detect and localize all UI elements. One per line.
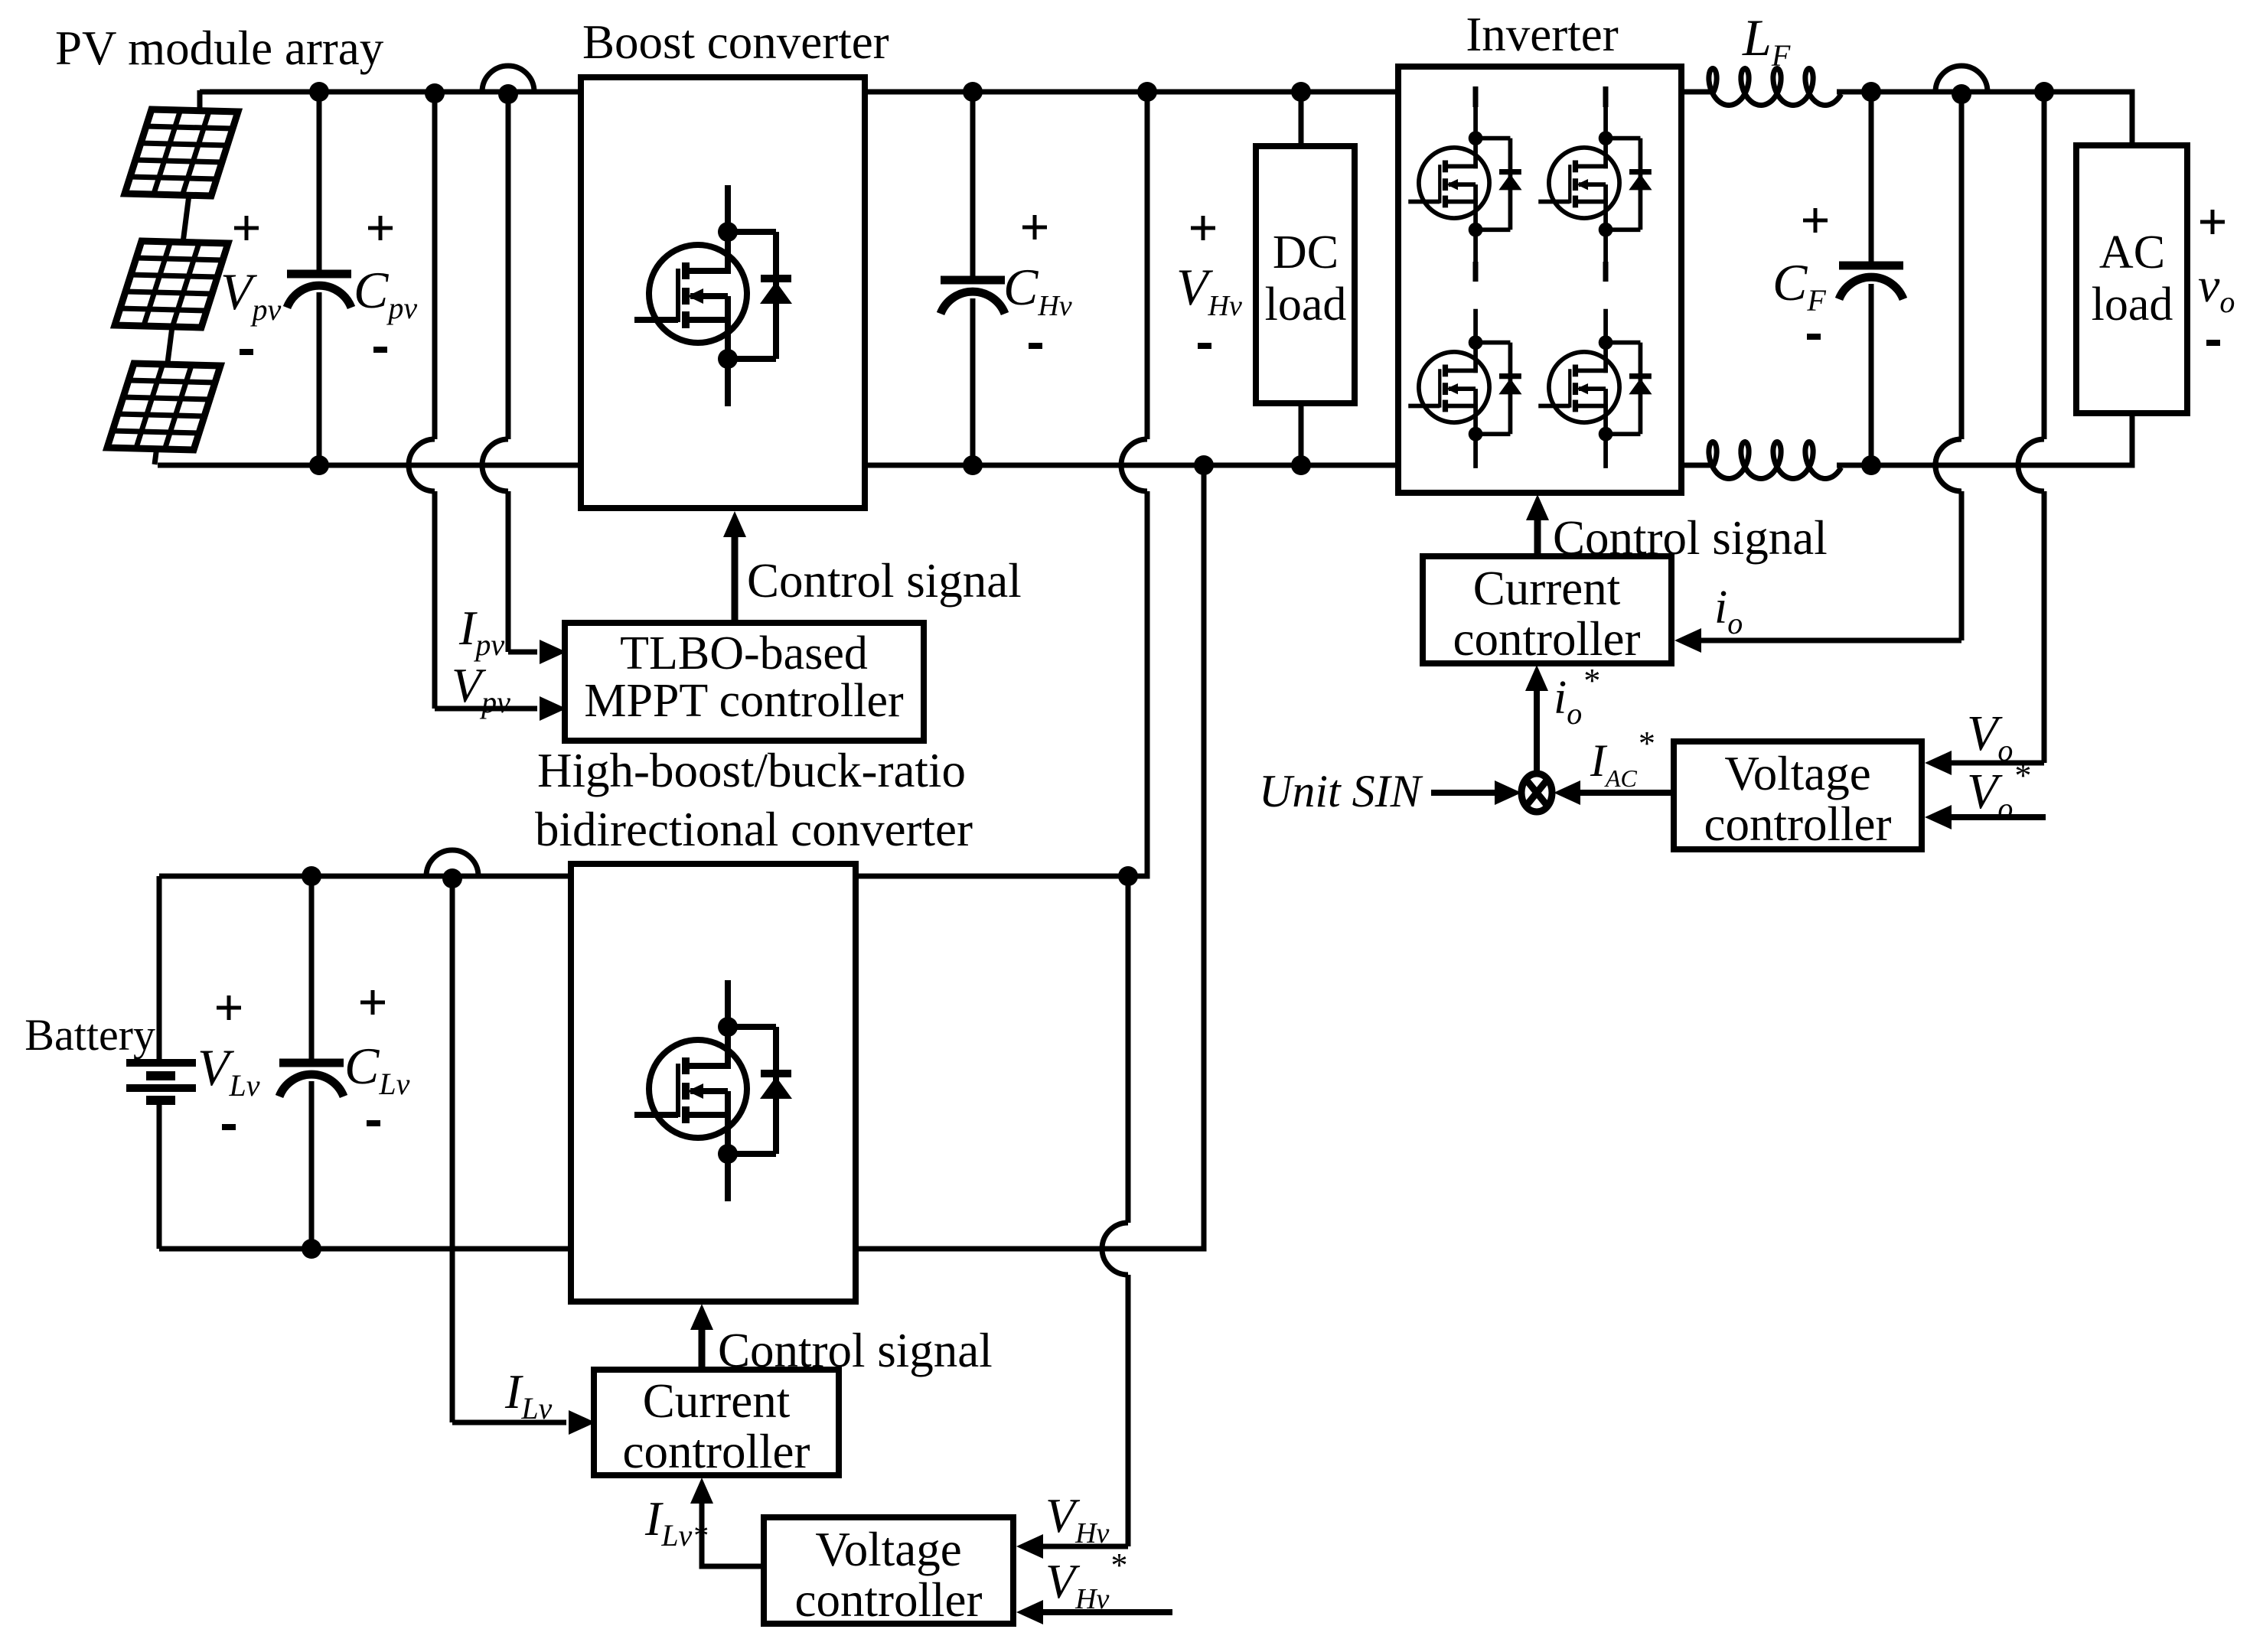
label - vo xyxy=(2206,340,2220,346)
svg-text:Boost converter: Boost converter xyxy=(582,15,889,69)
inductor LF bottom xyxy=(1681,463,1716,468)
label - Cpv xyxy=(373,347,387,353)
node CHv top junction xyxy=(963,82,983,102)
svg-text:Voltage: Voltage xyxy=(1724,747,1870,800)
capacitor CF xyxy=(1869,92,1874,266)
node Vpv sense tap xyxy=(425,83,445,103)
wire ILv sense feed xyxy=(450,878,455,1422)
TLBO MPPT controller block xyxy=(565,623,924,741)
node CF bottom junction xyxy=(1861,455,1881,475)
node DC load top junction xyxy=(1291,82,1311,102)
node VHv top tap xyxy=(1137,82,1157,102)
node Cpv bottom junction xyxy=(309,455,329,475)
svg-text:High-boost/buck-ratio: High-boost/buck-ratio xyxy=(537,744,966,797)
svg-text:controller: controller xyxy=(795,1573,983,1627)
label - CLv xyxy=(367,1120,380,1126)
svg-text:load: load xyxy=(1265,279,1347,331)
wire DC load bottom lead xyxy=(1299,403,1304,465)
svg-text:Unit SIN: Unit SIN xyxy=(1259,766,1423,816)
wire ILv-star reference xyxy=(702,1504,764,1566)
label - Vpv xyxy=(240,349,253,355)
control signal arrow to inverter xyxy=(1534,520,1541,556)
node CF top junction xyxy=(1861,82,1881,102)
svg-text:bidirectional converter: bidirectional converter xyxy=(535,803,973,856)
svg-text:TLBO-based: TLBO-based xyxy=(620,627,868,679)
wire AC bottom rail xyxy=(1837,413,2132,465)
svg-text:controller: controller xyxy=(623,1425,810,1478)
svg-text:Control signal: Control signal xyxy=(747,554,1022,608)
capacitor Cpv xyxy=(317,92,322,274)
svg-text:MPPT controller: MPPT controller xyxy=(584,675,904,727)
wire VHv bus link upper xyxy=(1145,92,1150,439)
node VHv sense tap xyxy=(1118,866,1138,886)
capacitor CHv xyxy=(970,92,976,280)
node DC load bottom junction xyxy=(1291,455,1311,475)
hop Vpv line over DC- rail xyxy=(409,439,435,491)
wire io feedback xyxy=(1959,94,1965,439)
node CHv bottom junction xyxy=(963,455,983,475)
bidirectional converter block xyxy=(571,864,856,1302)
wire top DC+ rail left segment xyxy=(200,90,581,95)
node CLv bottom junction xyxy=(302,1239,321,1259)
transistor Q2 bidirectional MOSFET xyxy=(634,980,792,1201)
PV panel 2 xyxy=(115,241,228,327)
wire DC load top lead xyxy=(1299,92,1304,146)
wire VHv sense feed xyxy=(1126,876,1131,1223)
inductor LF top xyxy=(1681,90,1716,95)
wire IAC-star arrow xyxy=(1578,790,1673,796)
wire Vo-star reference xyxy=(1951,814,2046,820)
battery B1 xyxy=(157,876,162,1063)
label - CF xyxy=(1807,334,1821,340)
DC load block xyxy=(1256,146,1355,403)
wire Unit SIN arrow xyxy=(1431,790,1496,796)
hop io line over AC rail xyxy=(1935,439,1961,491)
current sensor Ipv xyxy=(482,66,534,92)
hop Vo line over AC rail xyxy=(2018,439,2044,491)
wire battery bottom rail xyxy=(159,1246,571,1252)
svg-text:controller: controller xyxy=(1704,797,1892,851)
label + CHv xyxy=(1022,226,1047,230)
wire bidir top rail right xyxy=(856,874,1147,879)
Voltage controller bottom block xyxy=(764,1517,1013,1624)
label + VHv xyxy=(1191,226,1215,230)
current sensor io xyxy=(1935,66,1987,92)
node Vo sense tap xyxy=(2034,82,2054,102)
wire bottom DC- rail left segment xyxy=(158,463,581,468)
Current controller bottom block xyxy=(594,1370,839,1475)
label + Vpv xyxy=(234,226,259,230)
Current controller right block xyxy=(1423,556,1671,663)
node CLv top junction xyxy=(302,866,321,886)
boost converter block xyxy=(581,77,865,508)
wire io-star reference arrow xyxy=(1534,691,1540,774)
capacitor CLv xyxy=(309,876,315,1063)
transistor S3 inverter MOSFET xyxy=(1408,309,1521,468)
hop VHv link over DC- rail xyxy=(1121,439,1147,491)
inverter block xyxy=(1398,67,1681,493)
svg-text:Current: Current xyxy=(1473,562,1621,615)
svg-text:Battery: Battery xyxy=(24,1010,155,1060)
control signal arrow to boost xyxy=(732,536,739,623)
svg-text:AC: AC xyxy=(2099,226,2165,279)
Voltage controller right block xyxy=(1674,741,1922,849)
wire Vo feedback xyxy=(2042,92,2047,439)
PV panel 1 xyxy=(125,109,238,196)
label - VLv xyxy=(222,1124,236,1130)
node bus negative tap xyxy=(1194,455,1214,475)
current sensor ILv xyxy=(426,850,478,876)
control signal arrow to bidir xyxy=(699,1329,706,1370)
label - VHv xyxy=(1198,343,1211,349)
svg-text:PV module array: PV module array xyxy=(55,21,384,75)
label + Cpv xyxy=(368,226,393,230)
svg-text:controller: controller xyxy=(1453,612,1641,666)
PV panel 3 xyxy=(107,363,220,450)
wire bottom DC- rail mid segment xyxy=(865,463,1398,468)
transistor S1 inverter MOSFET xyxy=(1408,105,1521,264)
wire VHv-star reference xyxy=(1042,1609,1172,1615)
transistor Q1 boost MOSFET xyxy=(634,185,792,406)
label + VLv xyxy=(217,1006,241,1010)
svg-text:load: load xyxy=(2092,279,2173,331)
wire AC top rail xyxy=(1837,92,2132,145)
label - CHv xyxy=(1029,343,1042,349)
hop Ipv line over DC- rail xyxy=(482,439,508,491)
transistor S2 inverter MOSFET xyxy=(1538,105,1652,264)
svg-text:Inverter: Inverter xyxy=(1466,8,1618,61)
wire top DC+ rail mid segment xyxy=(865,90,1398,95)
wire Vpv sense feed xyxy=(432,93,438,439)
svg-text:Current: Current xyxy=(643,1374,791,1428)
svg-text:Voltage: Voltage xyxy=(815,1523,961,1576)
AC load block xyxy=(2076,145,2187,413)
PV string series wire xyxy=(197,90,203,111)
label + CLv xyxy=(360,1001,385,1005)
wire Ipv sense feed xyxy=(506,94,511,439)
label + vo xyxy=(2200,220,2225,224)
wire battery top rail xyxy=(159,874,571,879)
multiplier node xyxy=(1521,774,1552,812)
node Cpv top junction xyxy=(309,82,329,102)
transistor S4 inverter MOSFET xyxy=(1538,309,1652,468)
svg-text:DC: DC xyxy=(1273,226,1339,279)
wire VHv bus link lower xyxy=(1128,491,1147,876)
label + CF xyxy=(1803,219,1828,223)
wire bus negative link xyxy=(856,465,1204,1249)
